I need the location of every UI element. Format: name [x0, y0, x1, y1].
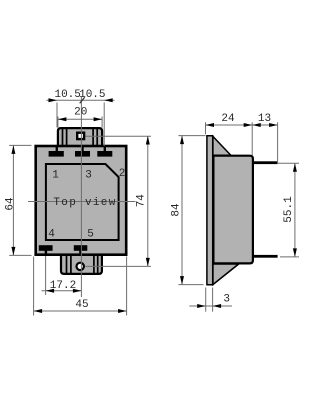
inner outline with chamfer: [46, 164, 119, 240]
dimension 10.5/10.5: dimension line: [47, 99, 115, 101]
dimension 84: extension line top: [178, 135, 205, 137]
dimension 3: dimension line: [189, 305, 232, 307]
pin stem top center: [81, 146, 83, 152]
svg-text:74: 74: [136, 194, 148, 208]
dimension 45: right arrow: [118, 309, 127, 313]
top connector block: [58, 128, 102, 147]
dimension 20: right arrow: [94, 117, 103, 121]
dimension 55.1: extension line bottom: [280, 256, 299, 258]
dimension 74: bottom arrow: [146, 258, 150, 267]
dimension 55.1: dimension line: [294, 163, 296, 257]
dimension 24/13: dimension line: [206, 124, 278, 126]
svg-text:3: 3: [223, 294, 230, 306]
horizontal centerline: [28, 201, 136, 203]
svg-text:3: 3: [85, 170, 92, 182]
dimension 3: extension line right: [212, 288, 214, 312]
top gusset: [213, 136, 231, 155]
dimension 24/13: extension line middle: [251, 122, 253, 155]
dimension 10.5/10.5: extension line left: [56, 103, 58, 128]
dimension 17.2: left arrow: [46, 289, 55, 293]
dimension 3: extension line left: [205, 288, 207, 312]
svg-text:24: 24: [221, 113, 235, 125]
dimension 20: extension line left: [57, 117, 59, 128]
svg-text:2: 2: [119, 168, 126, 180]
dimension 55.1: bottom arrow: [293, 248, 297, 257]
dimension 24: extension line left: [205, 122, 207, 134]
dimension 13: extension line right: [277, 122, 279, 161]
dimension 84: dimension line: [181, 136, 183, 285]
dimension 17.2: extension line left: [45, 256, 47, 295]
bottom connector block: [61, 254, 102, 274]
svg-text:55.1: 55.1: [283, 196, 295, 223]
pin stem bottom left: [45, 251, 47, 257]
dimension 17.2: right arrow: [73, 289, 82, 293]
dimension 64: extension line top: [9, 144, 31, 146]
svg-text:17.2: 17.2: [50, 280, 76, 292]
pad pin 4 (bottom left): [39, 245, 53, 251]
dimension 24: left arrow: [206, 123, 215, 127]
dimension 20: extension line right: [101, 117, 103, 128]
pad pin 1 (top left): [49, 151, 64, 157]
flange plate: [207, 136, 213, 285]
top connector rib lines: [62, 129, 64, 147]
bottom gusset: [213, 264, 239, 285]
svg-text:5: 5: [87, 229, 94, 241]
vertical centerline: [80, 97, 82, 298]
body outline: [36, 146, 127, 255]
dimension 45: left arrow: [34, 309, 43, 313]
dimension 84: top arrow: [180, 136, 184, 145]
dimension 20: left arrow: [58, 117, 67, 121]
dimension 45: extension line right: [126, 257, 128, 316]
pin stem bottom center: [79, 251, 81, 257]
dimension 45: dimension line: [34, 310, 127, 312]
svg-text:20: 20: [74, 107, 87, 119]
svg-text:10.5: 10.5: [79, 89, 105, 101]
bottom pin: [252, 255, 278, 258]
svg-text:Top view: Top view: [53, 197, 116, 209]
dimension 74: top arrow: [146, 136, 150, 145]
dimension 3: right arrow: [213, 304, 222, 308]
top pin: [252, 161, 278, 164]
pad pin 2 (top right): [97, 151, 112, 157]
pin stem top left: [56, 146, 58, 152]
svg-text:13: 13: [258, 113, 271, 125]
svg-text:64: 64: [4, 197, 16, 211]
bottom connector centerline to 74 extension: [85, 265, 151, 267]
dimension 55.1: extension line top: [278, 162, 299, 164]
dimension 45: extension line left: [33, 257, 35, 316]
dimension 20: dimension line: [58, 118, 102, 120]
dimension 13: left arrow: [252, 123, 261, 127]
top connector centerline to 74 extension: [85, 135, 151, 137]
dimension 64: dimension line: [12, 145, 14, 255]
svg-text:1: 1: [52, 170, 59, 182]
dimension 64: top arrow: [11, 145, 15, 154]
dimension 10.5/10.5: center slash: [80, 97, 85, 103]
dimension 84: bottom arrow: [180, 276, 184, 285]
svg-text:4: 4: [48, 229, 55, 241]
dimension 17.2: dimension line: [42, 290, 82, 292]
top connector center square outer: [77, 133, 84, 139]
pin stem top right: [104, 146, 106, 152]
dimension 10.5/10.5: extension line right: [103, 103, 105, 147]
dimension 13: right arrow: [269, 123, 278, 127]
dimension 55.1: top arrow: [293, 163, 297, 172]
dimension 84: extension line bottom: [178, 284, 203, 286]
dimension 74: dimension line: [147, 136, 149, 266]
pad pin 5 (bottom center): [74, 245, 88, 251]
dimension 24: right arrow: [244, 123, 253, 127]
dimension 64: bottom arrow: [11, 247, 15, 256]
svg-text:45: 45: [75, 299, 88, 311]
dimension 64: extension line bottom: [9, 254, 31, 256]
svg-text:10.5: 10.5: [54, 89, 80, 101]
svg-text:84: 84: [171, 203, 183, 217]
dimension 10.5/10.5: left arrow: [49, 98, 58, 102]
dimension 10.5/10.5: right arrow: [104, 98, 113, 102]
side body block: [213, 156, 253, 264]
dimension 3: left arrow: [197, 304, 206, 308]
pad pin 3 (top center): [75, 151, 90, 157]
bottom connector hole: [77, 263, 84, 270]
bottom connector rib lines: [66, 255, 68, 274]
